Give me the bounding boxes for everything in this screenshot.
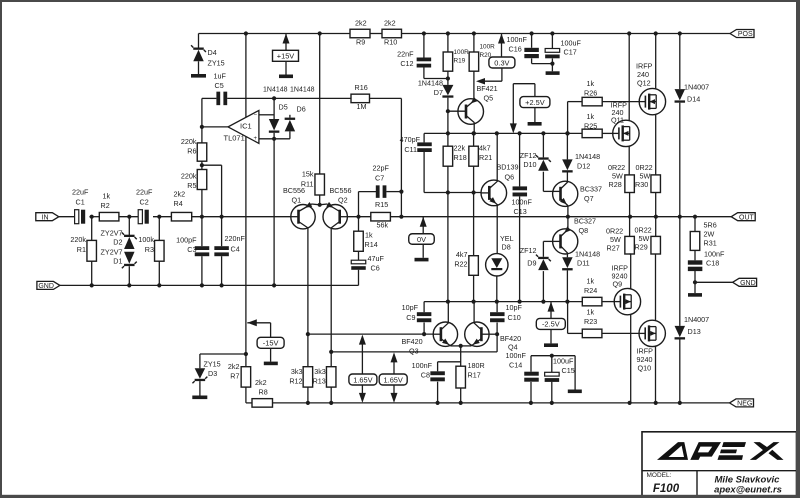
svg-text:10pF: 10pF — [402, 303, 419, 312]
svg-text:R23: R23 — [584, 317, 597, 326]
svg-text:D6: D6 — [297, 104, 306, 113]
svg-text:ZY2V7: ZY2V7 — [101, 247, 123, 256]
svg-text:+2.5V: +2.5V — [525, 98, 545, 107]
svg-text:R16: R16 — [355, 83, 368, 92]
svg-text:R3: R3 — [145, 245, 154, 254]
svg-text:22k: 22k — [454, 143, 466, 152]
svg-text:R30: R30 — [635, 180, 648, 189]
svg-text:BC556: BC556 — [283, 186, 305, 195]
svg-text:C2: C2 — [140, 197, 149, 206]
svg-text:3k3: 3k3 — [291, 367, 303, 376]
svg-text:+15V: +15V — [277, 52, 295, 61]
svg-text:100nF: 100nF — [512, 197, 533, 206]
svg-text:22uF: 22uF — [72, 187, 89, 196]
svg-text:220k: 220k — [181, 171, 197, 180]
svg-text:C7: C7 — [375, 173, 384, 182]
svg-text:R7: R7 — [230, 371, 239, 380]
svg-text:1uF: 1uF — [214, 71, 227, 80]
svg-text:R1: R1 — [77, 245, 86, 254]
svg-text:56k: 56k — [377, 220, 389, 229]
svg-text:ZY15: ZY15 — [204, 359, 221, 368]
svg-text:Q6: Q6 — [505, 172, 515, 181]
svg-text:D12: D12 — [577, 161, 590, 170]
svg-text:47uF: 47uF — [368, 254, 385, 263]
svg-text:1M: 1M — [357, 102, 367, 111]
svg-text:D13: D13 — [688, 327, 701, 336]
svg-text:1.65V: 1.65V — [384, 375, 403, 384]
svg-text:R31: R31 — [704, 238, 717, 247]
svg-text:100nF: 100nF — [412, 361, 433, 370]
svg-text:100uF: 100uF — [561, 38, 582, 47]
svg-text:100nF: 100nF — [704, 249, 725, 258]
svg-text:22nF: 22nF — [397, 49, 414, 58]
svg-text:C11: C11 — [404, 145, 417, 154]
svg-text:GND: GND — [38, 283, 54, 290]
svg-text:R25: R25 — [584, 121, 597, 130]
svg-text:1k: 1k — [103, 191, 111, 200]
svg-text:1k: 1k — [587, 307, 595, 316]
svg-text:2k2: 2k2 — [255, 378, 267, 387]
svg-text:100R: 100R — [480, 44, 496, 51]
svg-text:C10: C10 — [508, 313, 521, 322]
svg-text:D2: D2 — [113, 238, 122, 247]
svg-text:R24: R24 — [584, 286, 597, 295]
svg-text:220nF: 220nF — [225, 234, 246, 243]
svg-text:2k2: 2k2 — [384, 18, 396, 27]
svg-text:C6: C6 — [371, 263, 380, 272]
svg-text:1.65V: 1.65V — [353, 375, 372, 384]
svg-text:0V: 0V — [417, 235, 426, 244]
svg-text:1N4148: 1N4148 — [575, 249, 600, 258]
svg-text:IN: IN — [42, 214, 49, 221]
svg-text:-15V: -15V — [263, 339, 279, 348]
svg-text:3k3: 3k3 — [314, 367, 326, 376]
svg-text:R19: R19 — [454, 58, 466, 65]
svg-text:R14: R14 — [365, 240, 378, 249]
svg-text:BC327: BC327 — [574, 216, 596, 225]
svg-text:C15: C15 — [562, 366, 575, 375]
svg-text:D4: D4 — [208, 48, 217, 57]
svg-text:1N4007: 1N4007 — [684, 82, 709, 91]
svg-text:R22: R22 — [454, 260, 467, 269]
svg-text:Q9: Q9 — [613, 280, 623, 289]
svg-text:C3: C3 — [187, 245, 196, 254]
svg-text:0.3V: 0.3V — [494, 58, 509, 67]
svg-text:D14: D14 — [687, 94, 700, 103]
svg-text:ZF12: ZF12 — [520, 246, 537, 255]
svg-text:Q2: Q2 — [338, 195, 348, 204]
svg-text:Q3: Q3 — [409, 346, 419, 355]
svg-text:2k2: 2k2 — [174, 189, 186, 198]
svg-text:TL071: TL071 — [224, 133, 245, 142]
svg-text:1k: 1k — [587, 112, 595, 121]
svg-text:R26: R26 — [584, 88, 597, 97]
svg-text:1N4148: 1N4148 — [263, 87, 288, 94]
svg-text:D7: D7 — [434, 88, 443, 97]
svg-text:R17: R17 — [468, 370, 481, 379]
svg-text:R27: R27 — [607, 243, 620, 252]
svg-text:2k2: 2k2 — [228, 362, 240, 371]
svg-text:5R6: 5R6 — [704, 220, 717, 229]
svg-text:R21: R21 — [479, 153, 492, 162]
svg-text:D8: D8 — [502, 242, 511, 251]
svg-text:R4: R4 — [174, 199, 183, 208]
svg-text:OUT: OUT — [739, 214, 755, 221]
svg-text:22uF: 22uF — [136, 187, 153, 196]
svg-text:D9: D9 — [527, 258, 536, 267]
svg-text:R5: R5 — [187, 181, 196, 190]
svg-text:R6: R6 — [187, 146, 196, 155]
svg-text:C9: C9 — [406, 313, 415, 322]
svg-text:220k: 220k — [181, 137, 197, 146]
svg-text:Q5: Q5 — [484, 93, 494, 102]
svg-text:R2: R2 — [101, 201, 110, 210]
svg-text:C17: C17 — [564, 47, 577, 56]
svg-text:470pF: 470pF — [400, 135, 421, 144]
svg-text:R10: R10 — [384, 37, 397, 46]
svg-text:R18: R18 — [454, 153, 467, 162]
svg-text:220k: 220k — [70, 235, 86, 244]
svg-text:180R: 180R — [468, 361, 485, 370]
svg-text:+: + — [254, 136, 258, 142]
svg-text:100nF: 100nF — [507, 35, 528, 44]
svg-text:-2.5V: -2.5V — [542, 320, 560, 329]
svg-text:BC556: BC556 — [330, 186, 352, 195]
svg-text:IC1: IC1 — [240, 121, 252, 130]
svg-text:ZY15: ZY15 — [208, 58, 225, 67]
svg-text:1N4148: 1N4148 — [290, 87, 315, 94]
svg-text:1k: 1k — [587, 276, 595, 285]
svg-text:100nF: 100nF — [506, 351, 527, 360]
svg-text:D1: D1 — [113, 257, 122, 266]
svg-text:D10: D10 — [523, 160, 536, 169]
svg-text:POS: POS — [738, 31, 753, 38]
svg-text:100k: 100k — [138, 235, 154, 244]
svg-text:BC337: BC337 — [580, 184, 602, 193]
svg-text:ZF12: ZF12 — [520, 151, 537, 160]
svg-text:MODEL:: MODEL: — [647, 472, 672, 479]
svg-text:R9: R9 — [356, 37, 365, 46]
svg-text:BF421: BF421 — [477, 84, 498, 93]
svg-text:C18: C18 — [706, 258, 719, 267]
svg-text:R12: R12 — [289, 376, 302, 385]
svg-text:R29: R29 — [635, 242, 648, 251]
svg-text:R8: R8 — [259, 387, 268, 396]
svg-text:R28: R28 — [609, 180, 622, 189]
svg-text:R15: R15 — [375, 200, 388, 209]
svg-text:4k7: 4k7 — [456, 250, 468, 259]
svg-text:Q11: Q11 — [611, 116, 624, 125]
svg-text:Q1: Q1 — [292, 195, 302, 204]
svg-text:C5: C5 — [215, 81, 224, 90]
svg-text:C16: C16 — [509, 44, 522, 53]
svg-text:D11: D11 — [577, 258, 590, 267]
svg-text:2k2: 2k2 — [355, 18, 367, 27]
svg-text:4k7: 4k7 — [479, 143, 491, 152]
svg-text:15k: 15k — [302, 169, 314, 178]
svg-text:1N4148: 1N4148 — [575, 152, 600, 161]
svg-text:D3: D3 — [208, 369, 217, 378]
svg-text:BD139: BD139 — [497, 162, 519, 171]
svg-text:R13: R13 — [313, 376, 326, 385]
svg-text:C8: C8 — [421, 370, 430, 379]
svg-text:100pF: 100pF — [176, 235, 197, 244]
svg-text:F100: F100 — [653, 483, 680, 495]
svg-text:NEG: NEG — [737, 401, 752, 408]
svg-text:100R: 100R — [454, 49, 470, 56]
svg-text:BF420: BF420 — [402, 337, 423, 346]
svg-text:ZY2V7: ZY2V7 — [101, 228, 123, 237]
svg-text:1N4007: 1N4007 — [684, 315, 709, 324]
svg-text:1k: 1k — [365, 230, 373, 239]
svg-text:1N4148: 1N4148 — [418, 78, 443, 87]
svg-text:C4: C4 — [231, 244, 240, 253]
svg-text:C1: C1 — [76, 197, 85, 206]
svg-text:C14: C14 — [509, 360, 522, 369]
svg-text:Q7: Q7 — [584, 194, 594, 203]
svg-text:100uF: 100uF — [553, 356, 574, 365]
svg-text:GND: GND — [740, 280, 756, 287]
svg-text:−: − — [254, 112, 258, 118]
svg-text:C12: C12 — [400, 59, 413, 68]
svg-text:Q12: Q12 — [637, 78, 651, 87]
svg-text:1k: 1k — [587, 79, 595, 88]
svg-text:22pF: 22pF — [373, 163, 390, 172]
svg-text:Q8: Q8 — [579, 226, 589, 235]
svg-text:apex@eunet.rs: apex@eunet.rs — [714, 485, 782, 496]
svg-text:10pF: 10pF — [506, 303, 523, 312]
svg-text:2W: 2W — [704, 229, 715, 238]
svg-text:Q10: Q10 — [638, 363, 652, 372]
svg-text:D5: D5 — [279, 102, 288, 111]
